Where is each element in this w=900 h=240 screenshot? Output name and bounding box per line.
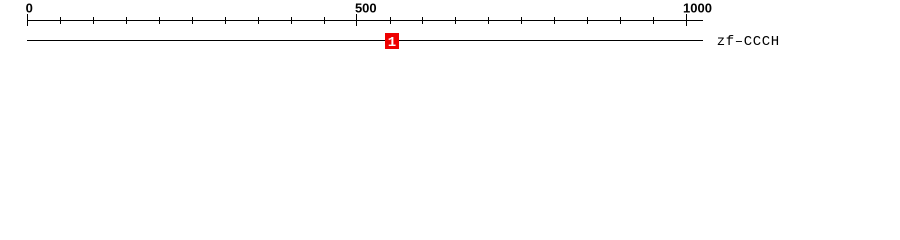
minor tick 900 [620,17,621,24]
minor tick 350 [258,17,259,24]
minor tick 400 [291,17,292,24]
svg-text:500: 500 [355,1,377,16]
minor tick 100 [93,17,94,24]
minor tick 300 [225,17,226,24]
minor tick 700 [488,17,489,24]
ruler axis line [27,20,703,21]
svg-text:1: 1 [388,35,396,51]
minor tick 600 [422,17,423,24]
minor tick 650 [455,17,456,24]
minor tick 200 [159,17,160,24]
major tick 1000 [686,14,687,26]
background [0,0,900,58]
major tick 0 [27,14,28,26]
minor tick 850 [587,17,588,24]
svg-text:1000: 1000 [683,1,712,16]
minor tick 450 [324,17,325,24]
minor tick 750 [521,17,522,24]
domain box zf-CCCH [385,33,399,49]
minor tick 550 [390,17,391,24]
major tick 500 [356,14,357,26]
minor tick 950 [653,17,654,24]
minor tick 150 [126,17,127,24]
minor tick 800 [554,17,555,24]
minor tick 250 [192,17,193,24]
svg-text:zf–CCCH: zf–CCCH [717,34,780,50]
minor tick 50 [60,17,61,24]
protein backbone line [27,40,703,41]
svg-text:0: 0 [26,1,33,16]
